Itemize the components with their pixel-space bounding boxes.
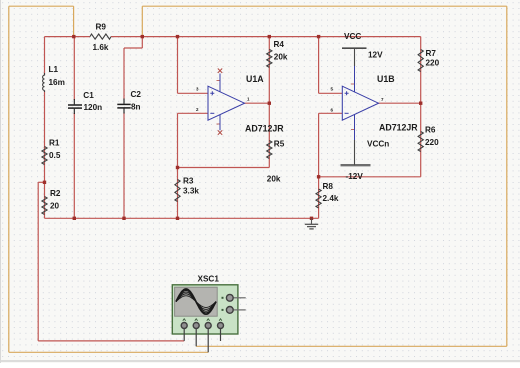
svg-text:R7: R7 (426, 49, 437, 58)
node U1A plus junction (176, 35, 179, 38)
svg-text:R9: R9 (96, 23, 107, 32)
capacitor C2 (117, 90, 141, 114)
svg-text:U1A: U1A (246, 74, 264, 84)
resistor R8 (316, 182, 339, 208)
wire: R7 column (420, 37, 422, 104)
wire: top rail left segment (45, 36, 91, 38)
wire: R6 column (420, 103, 422, 177)
wire: R8 branch (318, 177, 320, 219)
label U1A AD712JR (245, 123, 284, 133)
svg-text:220: 220 (425, 138, 439, 147)
node U1B plus junction (317, 35, 320, 38)
wire: left column L1/R1 branch (44, 37, 46, 183)
wire: scope terminal2 orange wire (196, 345, 507, 347)
node R4 top junction (268, 35, 271, 38)
resistor R7 (418, 49, 440, 72)
wire: orange scope channel A loop (top/right) (142, 6, 507, 346)
wire: U1A inverting input / feedback (178, 113, 209, 167)
svg-text:20k: 20k (274, 53, 288, 62)
svg-text:20: 20 (50, 201, 60, 210)
node C2 top junction (141, 35, 144, 38)
wire: top rail right segment (111, 36, 421, 38)
svg-text:C2: C2 (131, 90, 142, 99)
svg-text:U1B: U1B (377, 74, 395, 84)
node C1 bottom junction (73, 217, 76, 220)
resistor R6 (418, 126, 439, 152)
oscilloscope XSC1 (172, 285, 245, 353)
resistor R4 (267, 40, 288, 67)
svg-text:R4: R4 (274, 40, 285, 49)
node C2 bottom junction (122, 217, 125, 220)
resistor R2 (42, 189, 61, 215)
capacitor C1 (68, 91, 102, 114)
wire: orange scope channel B loop (left/top) (9, 6, 74, 352)
wire: bottom rail (45, 217, 319, 219)
node R3 top / feedback junction (176, 166, 179, 169)
svg-text:R8: R8 (323, 182, 334, 191)
wire: R2 branch (44, 182, 46, 218)
svg-text:2.4k: 2.4k (323, 194, 339, 203)
svg-text:VCCn: VCCn (367, 139, 389, 148)
op-amp U1A (196, 69, 250, 135)
wire: scope terminal3 orange wire (9, 351, 208, 353)
node R1/R2/scope junction (43, 181, 46, 184)
svg-text:R6: R6 (425, 126, 436, 135)
node R8 top junction (317, 175, 320, 178)
op-amp U1B (331, 66, 385, 140)
node U1B output junction (419, 102, 422, 105)
wire: R3 branch (177, 168, 179, 219)
wire: -12V rail (319, 176, 421, 178)
svg-text:8n: 8n (131, 103, 141, 112)
ground (305, 218, 318, 229)
inductor L1 (43, 65, 65, 92)
svg-text:0.5: 0.5 (49, 151, 61, 160)
resistor R1 (42, 139, 61, 165)
svg-text:16m: 16m (49, 78, 65, 87)
wire: C2 branch with step (124, 37, 142, 219)
svg-text:AD712JR: AD712JR (245, 123, 284, 133)
svg-text:20k: 20k (267, 174, 281, 183)
svg-text:L1: L1 (49, 65, 59, 74)
wire: U1B output (378, 102, 421, 104)
wire: C1 branch (73, 37, 75, 219)
node R3 bottom junction (176, 217, 179, 220)
svg-text:VCC: VCC (344, 32, 361, 41)
svg-text:R3: R3 (183, 177, 194, 186)
svg-text:3.3k: 3.3k (183, 187, 199, 196)
wire: feedback row to R5 (178, 167, 270, 169)
svg-text:120n: 120n (84, 103, 103, 112)
resistor R5 (267, 139, 285, 183)
svg-text:R2: R2 (50, 189, 61, 198)
wire: U1B inverting input (319, 113, 343, 177)
svg-text:-12V: -12V (346, 172, 364, 181)
wire: scope channel 1 red wire (38, 182, 184, 341)
svg-text:220: 220 (426, 59, 440, 68)
resistor R3 (175, 177, 199, 202)
svg-text:XSC1: XSC1 (198, 275, 220, 284)
wire: U1B non-inverting input (319, 37, 343, 94)
svg-text:12V: 12V (368, 50, 383, 59)
wire: R4 column (268, 37, 270, 104)
power VCC 12V (342, 32, 383, 66)
svg-text:R5: R5 (274, 139, 285, 148)
node U1A output junction (268, 102, 271, 105)
wire: U1A non-inverting input (178, 37, 209, 94)
wire: U1A output to R4/R5 node (245, 102, 270, 104)
label XSC1 (198, 275, 220, 284)
label U1B AD712JR (379, 123, 418, 133)
svg-text:1.6k: 1.6k (93, 43, 109, 52)
label U1A (246, 74, 264, 84)
wire: R5 column (268, 103, 270, 167)
svg-text:C1: C1 (83, 91, 94, 100)
svg-text:AD712JR: AD712JR (379, 123, 418, 133)
svg-text:R1: R1 (49, 139, 60, 148)
node C1 top / orange junction (72, 35, 75, 38)
node ground junction (310, 217, 313, 220)
power VCCn -12V (341, 139, 390, 181)
resistor R9 (90, 23, 111, 52)
label U1B (377, 74, 395, 84)
